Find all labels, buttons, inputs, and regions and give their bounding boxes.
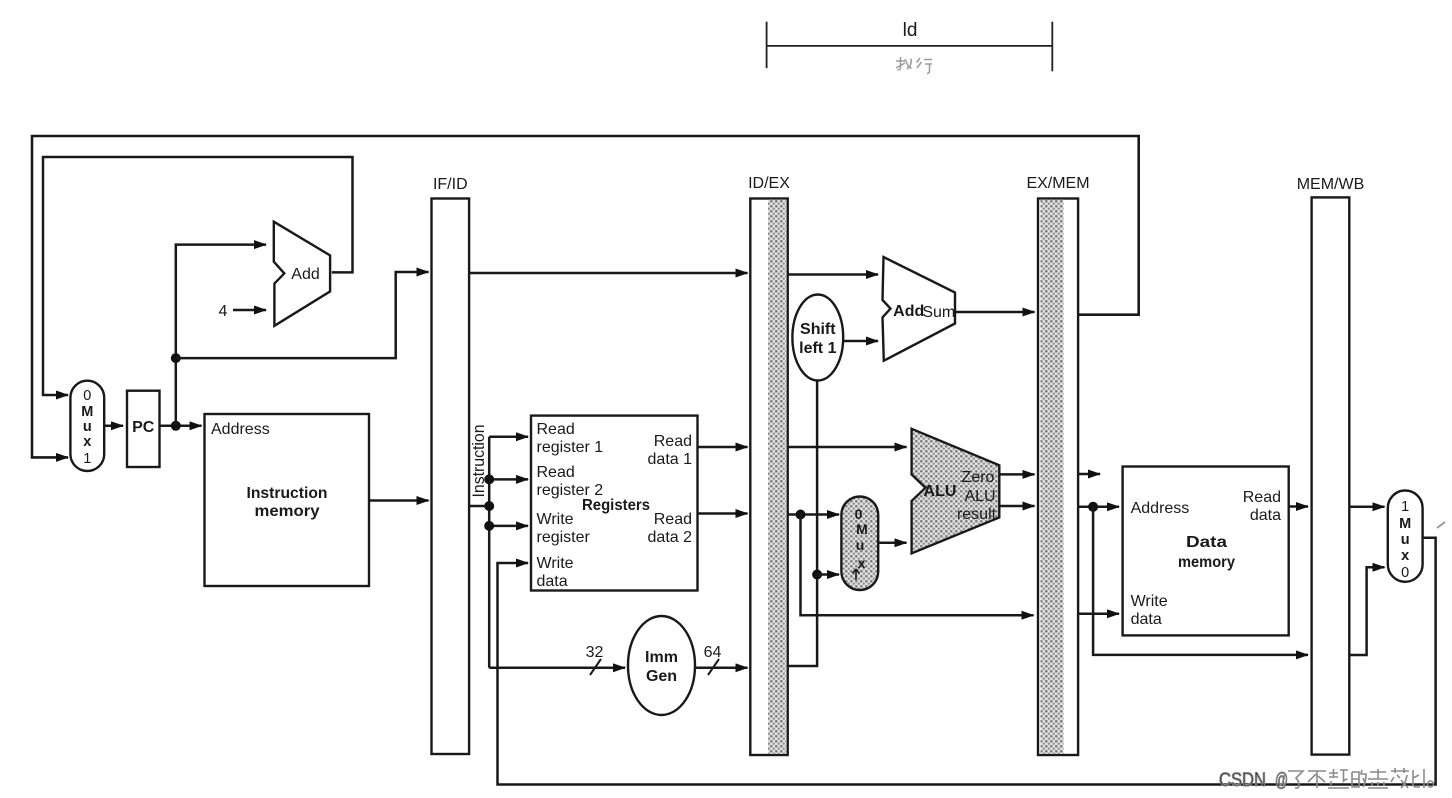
alu U1 (main ALU, shaded) [912,429,1000,554]
junction dot PC path branch [171,353,181,363]
svg-text:Imm: Imm [645,649,678,666]
pipeline register EX/MEM (shaded) [1026,175,1089,755]
wire to Read register 1 [489,435,528,438]
wire MEM/WB ALU result to mux M3 input 0 [1349,567,1384,655]
junction dot PC out [171,421,181,431]
svg-text:Read: Read [654,511,692,528]
pseudo-glyph 茨 [1391,768,1409,788]
wire ALU result bypass down to MEM/WB [1093,507,1308,655]
instruction memory box [205,414,370,586]
junction dot ALU result [1088,502,1098,512]
mux M1 (PC source mux) [70,381,104,471]
pseudo-glyph 的 [1352,770,1366,787]
svg-text:x: x [83,434,91,450]
stage bracket line [767,22,1053,72]
svg-text:x: x [858,555,866,571]
shift left 1 unit [792,295,843,381]
mux M3 (write-back mux) [1388,491,1423,582]
adder Add (PC+4) [274,222,330,326]
svg-text:data: data [1250,507,1281,524]
pipeline register ID/EX (shaded) [748,175,790,755]
wire immediate to ALU mux input 1 [817,573,839,576]
wire MEM/WB read data to mux M3 input 1 [1349,506,1384,509]
wire read data 2 down and to EX/MEM [801,515,1034,616]
svg-text:Write: Write [1131,593,1168,610]
wire PC up to Add input [176,245,266,426]
svg-text:Shift: Shift [800,321,836,338]
wire Add Sum to EX/MEM [955,311,1035,314]
svg-text:Address: Address [211,421,270,438]
svg-text:Add: Add [893,303,924,320]
svg-text:@: @ [1275,770,1288,791]
artifact gray dash [1437,522,1445,528]
wire PC+4 loop: Add output to top inner line to PC mux input 0 [43,157,353,395]
wire to Imm Gen [489,667,625,670]
junction dot instruction rr2 [484,474,494,484]
svg-text:Sum: Sum [922,304,955,321]
svg-text:ALU: ALU [924,483,957,500]
svg-text:Read: Read [654,433,692,450]
pipeline register IF/ID [432,176,470,754]
node Instruction distribution [470,437,625,668]
svg-text:memory: memory [1178,554,1235,571]
wire EX/MEM Zero out (dangling arrow) [1078,473,1100,476]
wire ALU Zero to EX/MEM [999,473,1034,476]
wire instruction memory to IF/ID [369,499,429,502]
imm gen unit [628,616,695,715]
svg-text:u: u [856,537,865,553]
wire 4 to Add [233,309,266,312]
wire PC value to IF/ID [176,272,429,358]
wire ALU result to EX/MEM [999,505,1034,508]
wire Imm Gen to ID/EX [695,667,748,670]
svg-text:MEM/WB: MEM/WB [1297,176,1365,193]
wire EX/MEM write data to data memory [1078,612,1119,615]
svg-text:Address: Address [1131,500,1190,517]
wire Read data 2 to ID/EX [698,512,748,515]
svg-text:Read: Read [537,421,575,438]
svg-text:EX/MEM: EX/MEM [1026,175,1089,192]
svg-text:1: 1 [83,451,91,467]
svg-text:1: 1 [1401,499,1409,515]
wire mux M2 to ALU [878,542,906,545]
wire shift left 1 to Add Sum [843,340,878,343]
wire Read data 1 to ID/EX [698,446,748,449]
svg-text:data 1: data 1 [648,451,693,468]
svg-text:data: data [537,573,568,590]
wire immediate from ID/EX up to Shift left 1 [788,381,817,667]
wire write-back to registers Write data [498,538,1436,785]
svg-text:Registers: Registers [582,497,650,514]
svg-text:0: 0 [855,506,863,522]
svg-text:Read: Read [537,464,575,481]
svg-text:data 2: data 2 [648,529,693,546]
svg-text:M: M [856,521,868,537]
mux M2 (ALU operand B mux, shaded) [841,497,878,591]
wire ID/EX read data 2 to ALU mux input 0 [788,513,839,516]
svg-text:Instruction: Instruction [247,485,328,502]
junction dot immediate branch [812,570,822,580]
svg-text:0: 0 [83,388,91,404]
svg-text:ld: ld [903,20,918,41]
wire ID/EX PC to Add Sum [788,273,878,276]
svg-text:32: 32 [586,644,604,661]
registers box [531,416,698,591]
pseudo-glyph 不 [1308,771,1326,788]
pipeline register MEM/WB [1297,176,1365,755]
wire to Write register [489,525,528,528]
svg-text:register 1: register 1 [537,439,604,456]
svg-text:M: M [81,404,93,420]
register PC [127,391,160,467]
svg-text:PC: PC [132,419,155,436]
svg-text:Gen: Gen [646,668,677,685]
wire IF/ID instruction out [470,505,489,508]
wire instruction vertical bus [488,437,491,668]
wire EX/MEM ALU result to data memory Address [1078,506,1119,509]
svg-text:u: u [1401,532,1410,548]
wire ID/EX read data 1 to ALU [788,446,907,449]
svg-text:u: u [83,419,92,435]
svg-text:Zero: Zero [962,469,995,486]
svg-text:data: data [1131,611,1162,628]
svg-text:Write: Write [537,511,574,528]
svg-text:Add: Add [291,266,319,283]
pseudo-glyph 了 [1288,771,1303,788]
junction dot read data 2 [796,510,806,520]
svg-text:0: 0 [1401,565,1409,581]
svg-text:M: M [1399,516,1411,532]
svg-text:CSDN: CSDN [1219,770,1266,791]
watermark CSDN [1219,768,1434,791]
adder Add Sum (branch target) [883,257,956,361]
svg-text:Data: Data [1186,534,1227,551]
svg-text:4: 4 [219,303,228,320]
pseudo-glyph 比 [1413,769,1424,788]
label 执行 (execute) pseudo-glyphs [896,57,932,74]
svg-text:64: 64 [704,644,722,661]
junction dot instruction wr [484,521,494,531]
svg-text:Read: Read [1243,489,1281,506]
data memory box [1123,467,1289,636]
svg-text:register: register [537,529,591,546]
wire data memory Read data to MEM/WB [1289,505,1308,508]
wire mux M1 to PC [104,425,123,428]
svg-text:ALU: ALU [964,488,995,505]
wire to Read register 2 [489,478,528,481]
svg-text:IF/ID: IF/ID [433,176,468,193]
wire IF/ID PC value to ID/EX [469,272,747,275]
svg-text:ID/EX: ID/EX [748,175,790,192]
pseudo-glyph 起 [1328,769,1349,788]
pseudo-glyph 盖 [1368,769,1388,788]
svg-text:result: result [957,506,997,523]
svg-text:x: x [1401,548,1409,564]
wire branch-target loop: EX/MEM to top to PC mux input 1 [32,136,1139,457]
wire PC to instruction memory Address [160,425,202,428]
svg-text:Instruction: Instruction [470,425,488,498]
period [1428,781,1434,787]
svg-text:memory: memory [255,503,320,520]
svg-text:left 1: left 1 [799,340,836,357]
svg-text:Write: Write [537,555,574,572]
junction dot instruction in [484,501,494,511]
